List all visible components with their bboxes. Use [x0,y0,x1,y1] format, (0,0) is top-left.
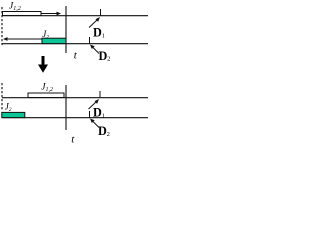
label D2 bottom diagram [98,124,110,138]
timeline row 2 bottom diagram [2,117,148,119]
label D2 top diagram [99,49,111,63]
execution bar J2 bottom diagram [2,112,25,117]
timeline row 2 top diagram [2,43,148,45]
label J2 bottom diagram [5,102,12,113]
time cursor line t bottom diagram [65,85,67,130]
label J1,2 top diagram [9,2,21,13]
execution bar J2 top diagram [42,38,66,43]
release line (dashed) bottom diagram [1,83,3,111]
label J2 top diagram [42,29,49,40]
arrow to D2 tick top diagram [90,45,99,54]
svg-text:t: t [71,134,75,146]
svg-text:t: t [74,50,78,62]
timeline row 1 bottom diagram [2,97,148,99]
svg-text:D1: D1 [93,106,105,120]
arrow to D1 tick top diagram [89,17,100,28]
svg-text:J1,2: J1,2 [9,2,21,13]
label t top diagram [74,50,78,62]
task box J1,2 top diagram [3,12,42,16]
label D1 top diagram [93,26,105,40]
label J1,2 bottom diagram [41,83,53,94]
deadline tick D2 bottom diagram [89,111,91,118]
time cursor line t top diagram [65,6,67,53]
deadline tick D1 bottom diagram [99,91,101,98]
task box J1,2 bottom diagram [28,93,64,98]
svg-text:J2: J2 [42,29,49,40]
svg-text:J1,2: J1,2 [41,83,53,94]
svg-text:D2: D2 [99,49,111,63]
release line (dashed) top diagram [1,7,3,45]
svg-text:J2: J2 [5,102,12,113]
label D1 bottom diagram [93,106,105,120]
shift-left arrow top diagram [3,37,42,41]
label t bottom diagram [71,134,75,146]
deadline tick D2 top diagram [89,37,91,44]
shift-right arrow top diagram [41,12,61,16]
arrow to D2 tick bottom diagram [90,119,99,128]
svg-text:D2: D2 [98,124,110,138]
timeline row 1 top diagram [2,15,148,17]
deadline tick D1 top diagram [100,9,102,16]
big transform arrow between diagrams [38,56,48,73]
arrow to D1 tick bottom diagram [89,99,100,109]
svg-text:D1: D1 [93,26,105,40]
